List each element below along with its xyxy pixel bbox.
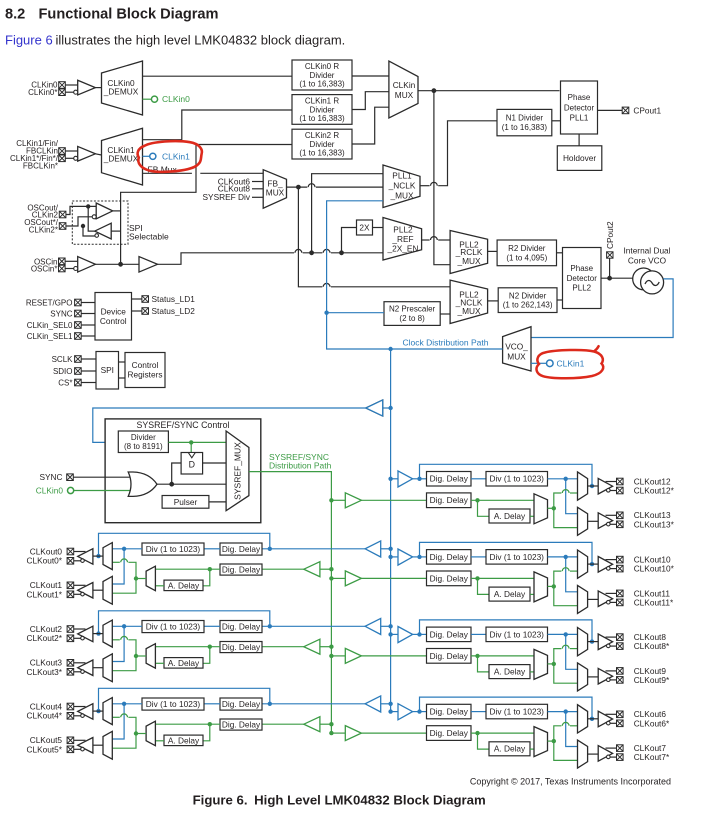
wire analog mux to output muxes CLKout10 (green) [548, 568, 578, 606]
box Device Control [95, 293, 132, 341]
wire divider bypass rail CLKout10 (blue) [420, 542, 595, 566]
svg-text:OSCin*: OSCin* [31, 265, 58, 274]
wire green delay routing CLKout0 [155, 567, 220, 586]
svg-text:CS*: CS* [58, 378, 72, 387]
wire D output to SYSREF_MUX [203, 462, 227, 464]
box Dig. Delay CLKout8 (blue path) [427, 627, 472, 642]
svg-text:MUX: MUX [507, 352, 526, 362]
svg-text:Dig. Delay: Dig. Delay [430, 474, 469, 484]
svg-text:Dig. Delay: Dig. Delay [222, 621, 261, 631]
buffer SYSREF divider feed (blue) [93, 400, 393, 442]
box Dig. Delay CLKout2 (green path) [220, 642, 262, 653]
wire Dig. Delay to Div CLKout0 (blue) [204, 548, 220, 550]
wire OSC buffers to CLKin2 node [111, 211, 120, 231]
svg-text:PLL1: PLL1 [570, 114, 589, 123]
box Div (1 to 1023) CLKout12 [486, 472, 548, 487]
svg-text:PLL2: PLL2 [393, 224, 413, 234]
annotation red circle around CLKin1 node (hand drawn) [138, 141, 202, 172]
svg-text:Div (1 to 1023): Div (1 to 1023) [490, 552, 545, 562]
wire divider bypass rail CLKout4 (blue) [96, 688, 269, 713]
label CLKout10 CLKout10* [634, 555, 675, 574]
svg-text:CLKout11*: CLKout11* [634, 598, 674, 608]
svg-text:R2 Divider: R2 Divider [508, 244, 546, 253]
buffer SYSREF distribution to CLKout0 (green) [262, 562, 334, 577]
svg-text:A. Delay: A. Delay [168, 735, 200, 745]
wire 2X to PLL2_REF_2X_EN [373, 227, 384, 229]
pin CPout2 with vertical label [605, 221, 615, 278]
caption Figure 6 [193, 793, 486, 808]
wire A. Delay to analog mux CLKout0 (green) [155, 585, 164, 587]
svg-text:Phase: Phase [570, 264, 593, 273]
driver CLKout12/CLKout12* [588, 478, 624, 494]
svg-text:N2 Prescaler: N2 Prescaler [389, 305, 436, 314]
label SPI Selectable [129, 223, 169, 242]
wire OSCout pin2 to buffers [66, 217, 95, 236]
pin Status_LD1 [132, 294, 196, 304]
wire Div output to output muxes CLKout8 (blue) [548, 632, 578, 669]
svg-text:_NCLK: _NCLK [388, 181, 416, 191]
box Pulser [162, 496, 226, 509]
svg-text:Clock Distribution Path: Clock Distribution Path [403, 337, 489, 347]
box CLKin0 R Divider [292, 60, 352, 90]
svg-text:CLKout5*: CLKout5* [26, 744, 62, 754]
box Dig. Delay CLKout10 (blue path) [427, 550, 472, 565]
buffer SYSREF distribution to CLKout10 (green) [329, 571, 426, 586]
node CLKin0 input to OR (green) [36, 485, 74, 495]
wire green delay routing CLKout2 [155, 645, 220, 664]
label CLKout4 CLKout4* [26, 701, 62, 720]
wire A. Delay to analog mux CLKout2 (green) [155, 662, 164, 664]
box N2 Divider [488, 288, 557, 313]
wire Dig. Delay to Div CLKout4 (blue) [204, 703, 220, 705]
svg-text:CLKin: CLKin [393, 80, 416, 90]
box Dig. Delay CLKout12 (green path) [427, 493, 472, 508]
svg-text:CLKin0: CLKin0 [36, 485, 64, 495]
svg-text:Divider: Divider [310, 71, 335, 80]
wire Div output to output muxes CLKout12 (blue) [548, 477, 578, 514]
svg-text:CLKin2*: CLKin2* [29, 226, 58, 235]
svg-text:Dig. Delay: Dig. Delay [430, 629, 469, 639]
svg-text:CLKin1: CLKin1 [162, 151, 190, 161]
mux output select CLKout12 [578, 472, 588, 500]
wire Div output to output muxes CLKout0 (blue) [112, 547, 142, 584]
mux VCO_MUX [503, 327, 531, 371]
label CLKin0 / CLKin0* input pins [28, 80, 65, 97]
demux CLKin0_DEMUX [102, 61, 143, 115]
svg-text:Divider: Divider [310, 105, 335, 114]
box SPI [96, 352, 119, 390]
wire N2 Divider to Phase Detector PLL2 [557, 299, 563, 301]
driver CLKout7/CLKout7* [588, 745, 624, 761]
svg-text:2X: 2X [359, 222, 370, 232]
mux output select CLKout8 [578, 628, 588, 656]
box Dig. Delay CLKout6 (green path) [427, 726, 472, 741]
svg-text:_REF: _REF [391, 234, 413, 244]
box 2X doubler [357, 220, 373, 235]
svg-text:Status_LD2: Status_LD2 [152, 306, 196, 316]
wire divider bypass rail CLKout8 (blue) [420, 620, 595, 644]
svg-text:Device: Device [101, 306, 127, 316]
wire green delay routing CLKout4 [155, 722, 220, 741]
wire OSC/CLKin2 to CLKin2 R Divider [121, 145, 292, 265]
mux output select CLKout4 [103, 698, 112, 725]
svg-text:N2 Divider: N2 Divider [509, 291, 547, 300]
wire green delay routing CLKout6 [471, 731, 534, 749]
svg-text:Status_LD1: Status_LD1 [152, 294, 196, 304]
box A. Delay CLKout8 [489, 665, 530, 679]
dashed box SPI Selectable [72, 201, 128, 244]
driver CLKout9/CLKout9* [588, 668, 624, 684]
svg-text:CLKin1: CLKin1 [557, 358, 585, 368]
buffer clock distribution to CLKout8 (blue) [388, 627, 426, 643]
wire clock distribution path feedback (blue) [324, 201, 502, 351]
wire CLKin MUX output to PLL1 phase detector and PLL2 RCLK mux [418, 88, 560, 264]
wire Dig. Delay to Div CLKout10 (blue) [471, 556, 486, 558]
svg-text:Dig. Delay: Dig. Delay [222, 699, 261, 709]
mux analog delay select CLKout6 [534, 727, 548, 757]
label FB Mux [148, 164, 178, 174]
svg-text:8.2: 8.2 [5, 6, 25, 22]
svg-text:(1 to 4,095): (1 to 4,095) [506, 253, 547, 262]
svg-text:Copyright © 2017, Texas Instru: Copyright © 2017, Texas Instruments Inco… [470, 777, 671, 787]
wire VCO to VCO_MUX (blue) [531, 279, 673, 338]
wire CLKin2 R Divider to CLKin MUX [352, 107, 389, 144]
node CLKin1 at VCO_MUX (blue test point) [531, 358, 585, 368]
svg-text:CLKout12*: CLKout12* [634, 486, 675, 496]
driver CLKout3/CLKout3* [67, 660, 103, 676]
box Dig. Delay CLKout12 (blue path) [427, 472, 472, 487]
mux analog delay select CLKout12 [534, 494, 548, 524]
wire analog mux to output muxes CLKout6 (green) [548, 722, 578, 760]
box Dig. Delay CLKout0 (blue path) [220, 543, 262, 555]
gate OR for SYNC [73, 472, 157, 496]
pin Status_LD2 [132, 306, 196, 316]
svg-text:CLKout9*: CLKout9* [634, 675, 670, 685]
box Dig. Delay CLKout10 (green path) [427, 571, 472, 586]
svg-text:Dig. Delay: Dig. Delay [430, 728, 469, 738]
svg-text:SYSREF Div: SYSREF Div [203, 192, 251, 202]
svg-text:illustrates the high level LMK: illustrates the high level LMK04832 bloc… [56, 33, 346, 48]
buffer clock distribution to CLKout12 (blue) [388, 471, 426, 487]
wire CLKin0_DEMUX to CLKin0 R Divider [143, 75, 293, 77]
svg-text:Div (1 to 1023): Div (1 to 1023) [490, 474, 545, 484]
wire divider bypass rail CLKout0 (blue) [96, 533, 269, 558]
wire Div output to output muxes CLKout6 (blue) [548, 709, 578, 746]
label CLKin1/Fin/FBCLKin input pins [10, 139, 65, 171]
svg-text:Distribution Path: Distribution Path [269, 461, 332, 471]
box Holdover [557, 134, 602, 170]
mux output select CLKout2 [103, 620, 112, 647]
label CLKout11 CLKout11* [634, 588, 674, 607]
box Dig. Delay CLKout0 (green path) [220, 564, 262, 575]
mux output select CLKout5 [103, 731, 112, 759]
svg-text:SYSREF/SYNC Control: SYSREF/SYNC Control [137, 420, 230, 430]
svg-text:SYNC: SYNC [39, 472, 62, 482]
mux output select CLKout1 [103, 576, 112, 604]
svg-text:SPI: SPI [101, 365, 114, 375]
mux analog delay select CLKout8 [534, 649, 548, 679]
svg-text:Holdover: Holdover [563, 153, 596, 163]
svg-text:CLKout1*: CLKout1* [26, 589, 62, 599]
svg-text:CLKout10*: CLKout10* [634, 564, 675, 574]
svg-text:A. Delay: A. Delay [168, 658, 200, 668]
svg-text:FBCLKin*: FBCLKin* [23, 161, 58, 170]
box Div (1 to 1023) CLKout4 [142, 698, 204, 710]
label CLKout0 CLKout0* [26, 546, 62, 565]
mux PLL2_NCLK_MUX [450, 280, 488, 323]
mux FB_MUX [263, 170, 286, 209]
mux output select CLKout6 [578, 705, 588, 733]
wire PLL1_NCLK_MUX output to N1 Divider [420, 121, 497, 186]
mux output select CLKout7 [578, 740, 588, 768]
wire divider bypass rail CLKout6 (blue) [420, 697, 595, 721]
buffer SYSREF distribution to CLKout12 (green) [329, 493, 426, 508]
svg-text:Figure 6. High Level LMK04832: Figure 6. High Level LMK04832 Block Diag… [193, 793, 486, 808]
svg-text:Div (1 to 1023): Div (1 to 1023) [490, 706, 545, 716]
oscillator Internal Dual Core VCO [623, 245, 670, 294]
driver CLKout8/CLKout8* [588, 634, 624, 650]
wire Phase Detector PLL2 to VCO [601, 276, 633, 281]
heading 8.2 Functional Block Diagram [5, 6, 219, 22]
annotation red circle around CLKin1 at VCO_MUX (hand drawn) [536, 346, 603, 378]
label RESET/GPO SYNC CLKin_SEL pins [26, 298, 95, 341]
svg-text:Selectable: Selectable [129, 231, 169, 241]
wire CLKin1 pins to buffer [65, 151, 77, 158]
wire analog mux to output muxes CLKout0 (green) [112, 559, 146, 593]
pin CPout1 [598, 105, 662, 115]
svg-text:CLKin0 R: CLKin0 R [305, 62, 339, 71]
svg-text:(1 to 16,383): (1 to 16,383) [502, 123, 548, 132]
wire A. Delay to analog mux CLKout10 (green) [530, 593, 534, 595]
svg-text:(2 to 8): (2 to 8) [399, 314, 425, 323]
wire Div output to output muxes CLKout10 (blue) [548, 555, 578, 592]
label SYSREF/SYNC Distribution Path (green) [269, 452, 332, 471]
svg-text:PLL1: PLL1 [392, 171, 412, 181]
buffer SYSREF distribution to CLKout6 (green) [329, 726, 426, 741]
svg-text:CLKin_SEL1: CLKin_SEL1 [27, 332, 73, 341]
svg-text:Registers: Registers [127, 370, 162, 380]
svg-text:(1 to 16,383): (1 to 16,383) [299, 114, 345, 123]
flip-flop D [181, 453, 203, 475]
svg-text:Pulser: Pulser [174, 497, 198, 507]
label CLKout8 CLKout8* [634, 632, 670, 651]
wire analog mux to output muxes CLKout8 (green) [548, 645, 578, 683]
svg-text:A. Delay: A. Delay [168, 580, 200, 590]
box N2 Prescaler [384, 302, 450, 326]
mux output select CLKout3 [103, 654, 112, 682]
box SYSREF/SYNC Control outer [105, 419, 261, 523]
driver CLKout4/CLKout4* [67, 703, 103, 719]
svg-text:(8 to 8191): (8 to 8191) [124, 442, 163, 451]
svg-text:Div (1 to 1023): Div (1 to 1023) [490, 629, 545, 639]
label CLKout3 CLKout3* [26, 658, 62, 677]
svg-text:Figure 6: Figure 6 [5, 33, 53, 48]
svg-text:Div (1 to 1023): Div (1 to 1023) [146, 699, 201, 709]
box N1 Divider [497, 109, 552, 135]
wire PLL2_REF_2X_EN output to PLL2_RCLK_MUX [422, 237, 451, 240]
buffer U_CLKin0 input [74, 80, 102, 95]
intro paragraph with Figure 6 link [5, 33, 345, 48]
driver CLKout5/CLKout5* [67, 737, 103, 753]
svg-text:CLKin0: CLKin0 [162, 94, 190, 104]
box A. Delay CLKout4 [164, 735, 203, 746]
svg-text:CLKin_SEL0: CLKin_SEL0 [27, 321, 73, 330]
box A. Delay CLKout6 [489, 742, 530, 756]
driver CLKout11/CLKout11* [588, 590, 624, 606]
buffer U_CLKin1 input [74, 146, 102, 161]
mux SYSREF_MUX [226, 431, 249, 511]
svg-text:Internal Dual: Internal Dual [623, 245, 670, 255]
svg-text:CLKout8*: CLKout8* [634, 641, 670, 651]
svg-text:Dig. Delay: Dig. Delay [430, 495, 469, 505]
box CLKin1 R Divider [292, 95, 352, 125]
wire OR output to D input and SYSREF_MUX [157, 463, 226, 487]
label CLKout12 CLKout12* [634, 476, 675, 495]
mux output select CLKout13 [578, 507, 588, 535]
box Div (1 to 1023) CLKout10 [486, 550, 548, 565]
driver CLKout1/CLKout1* [67, 582, 103, 598]
svg-text:Dig. Delay: Dig. Delay [222, 564, 261, 574]
mux PLL2_REF_2X_EN [383, 218, 422, 261]
svg-text:Detector: Detector [567, 274, 598, 283]
label CLKout9 CLKout9* [634, 666, 670, 685]
wire Dig. Delay to Div CLKout8 (blue) [471, 633, 486, 635]
box Div (1 to 1023) CLKout8 [486, 627, 548, 642]
svg-text:_MUX: _MUX [456, 306, 481, 316]
wire green delay routing CLKout10 [471, 576, 534, 594]
box R2 Divider [488, 240, 557, 266]
demux CLKin1_DEMUX [102, 128, 143, 185]
wire green delay routing CLKout8 [471, 654, 534, 672]
svg-text:Div (1 to 1023): Div (1 to 1023) [146, 544, 201, 554]
wire Div output to output muxes CLKout4 (blue) [112, 702, 142, 739]
box Dig. Delay CLKout2 (blue path) [220, 621, 262, 633]
svg-text:_2X_EN: _2X_EN [387, 243, 419, 253]
buffer clock distribution to CLKout10 (blue) [388, 549, 426, 565]
wire Dig. Delay to Div CLKout2 (blue) [204, 625, 220, 627]
label OSCin pins [31, 257, 65, 273]
svg-text:CLKout3*: CLKout3* [26, 667, 62, 677]
buffer clock distribution to CLKout2 (blue) [262, 618, 393, 634]
svg-text:Phase: Phase [568, 93, 591, 102]
svg-text:CPout2: CPout2 [605, 221, 615, 249]
label FB_MUX inputs CLKout6 / CLKout8 / SYSREF Div [203, 176, 264, 202]
mux analog delay select CLKout0 [146, 566, 155, 591]
box A. Delay CLKout0 [164, 580, 203, 591]
svg-text:PLL2: PLL2 [572, 284, 591, 293]
svg-text:Dig. Delay: Dig. Delay [430, 706, 469, 716]
svg-text:SYSREF_MUX: SYSREF_MUX [233, 442, 243, 500]
svg-text:Functional Block Diagram: Functional Block Diagram [39, 6, 219, 22]
mux PLL2_RCLK_MUX [450, 231, 488, 274]
wire N1 Divider to Phase Detector PLL1 [552, 120, 561, 122]
svg-text:A. Delay: A. Delay [494, 511, 526, 521]
wire FB Mux path from CLKin1_DEMUX to FB_MUX [143, 172, 264, 174]
svg-text:CLKout13*: CLKout13* [634, 519, 675, 529]
wire CLKin1_DEMUX to CLKin1 R Divider [143, 110, 293, 140]
mux output select CLKout11 [578, 585, 588, 613]
svg-text:CLKout2*: CLKout2* [26, 633, 62, 643]
svg-text:Dig. Delay: Dig. Delay [222, 544, 261, 554]
wire A. Delay to analog mux CLKout4 (green) [155, 740, 164, 742]
svg-text:Dig. Delay: Dig. Delay [430, 651, 469, 661]
buffer OSCout input (CLKin2) [92, 203, 113, 219]
svg-text:N1 Divider: N1 Divider [506, 114, 544, 123]
wire analog mux to output muxes CLKout12 (green) [548, 490, 578, 528]
svg-text:SYNC: SYNC [50, 309, 72, 318]
buffer SYSREF distribution to CLKout8 (green) [329, 648, 426, 663]
mux analog delay select CLKout4 [146, 721, 155, 746]
box CLKin2 R Divider [292, 129, 352, 159]
wire FB_MUX output to PLL1_NCLK_MUX and PLL2_NCLK_MUX [287, 184, 451, 287]
box Phase Detector PLL2 [563, 248, 602, 309]
wire analog mux to output muxes CLKout2 (green) [112, 636, 146, 670]
label CLKout2 CLKout2* [26, 624, 62, 643]
box Dig. Delay CLKout8 (green path) [427, 649, 472, 664]
label OSCout/CLKin2 pins [24, 203, 66, 234]
svg-text:CLKout6*: CLKout6* [634, 718, 670, 728]
wire divider bypass rail CLKout2 (blue) [96, 611, 269, 636]
label Clock Distribution Path (blue) [403, 337, 489, 347]
svg-text:_DEMUX: _DEMUX [103, 153, 139, 163]
svg-text:Divider: Divider [310, 140, 335, 149]
buffer clock distribution to CLKout0 (blue) [262, 541, 393, 557]
wire CLKin1 R Divider to CLKin MUX [352, 92, 389, 110]
svg-text:CPout1: CPout1 [633, 105, 661, 115]
svg-text:_MUX: _MUX [389, 190, 414, 200]
svg-text:Detector: Detector [564, 103, 595, 112]
buffer OSCout output [95, 223, 112, 239]
wire blue distribution vertical [390, 349, 392, 712]
node CLKin0 (green test point) [143, 94, 191, 104]
wire CLKin0 R Divider to CLKin MUX [352, 75, 389, 77]
svg-text:RESET/GPO: RESET/GPO [26, 298, 73, 307]
svg-text:CLKin2 R: CLKin2 R [305, 131, 339, 140]
label CLKout5 CLKout5* [26, 735, 62, 754]
svg-text:A. Delay: A. Delay [494, 744, 526, 754]
wire A. Delay to analog mux CLKout8 (green) [530, 671, 534, 673]
label CLKout1 CLKout1* [26, 580, 62, 599]
wire Div output to output muxes CLKout2 (blue) [112, 624, 142, 661]
pin SYNC input [39, 472, 73, 482]
wire analog mux to output muxes CLKout4 (green) [112, 714, 146, 748]
svg-text:_MUX: _MUX [456, 256, 481, 266]
mux output select CLKout9 [578, 663, 588, 691]
box A. Delay CLKout12 [489, 509, 530, 523]
wire Dig. Delay to Div CLKout12 (blue) [471, 478, 486, 480]
svg-text:CLKout0*: CLKout0* [26, 556, 62, 566]
svg-text:Control: Control [132, 360, 159, 370]
box Div (1 to 1023) CLKout2 [142, 621, 204, 633]
driver CLKout0/CLKout0* [67, 548, 103, 564]
wire green delay routing CLKout12 [471, 498, 534, 516]
buffer OSCin input [65, 257, 95, 273]
buffer clock distribution to CLKout4 (blue) [262, 696, 393, 712]
driver CLKout6/CLKout6* [588, 711, 624, 727]
svg-text:Divider: Divider [131, 433, 156, 442]
mux CLKin MUX [389, 61, 418, 118]
box Div (1 to 1023) CLKout6 [486, 704, 548, 719]
box A. Delay CLKout10 [489, 587, 530, 601]
svg-text:VCO_: VCO_ [505, 342, 528, 352]
wire Divider to SYSREF_MUX (green) [168, 440, 226, 452]
svg-text:CLKout7*: CLKout7* [634, 752, 670, 762]
mux analog delay select CLKout10 [534, 572, 548, 602]
box Dig. Delay CLKout4 (blue path) [220, 698, 262, 710]
driver CLKout13/CLKout13* [588, 512, 624, 528]
svg-text:SCLK: SCLK [52, 355, 74, 364]
mux analog delay select CLKout2 [146, 644, 155, 669]
